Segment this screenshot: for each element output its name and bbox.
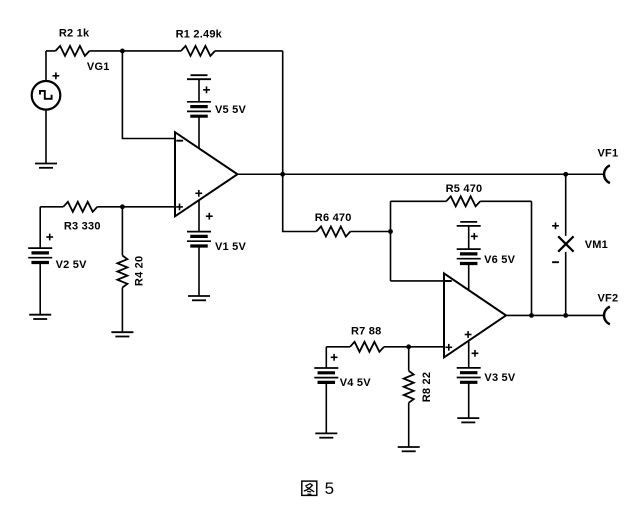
svg-text:R1 2.49k: R1 2.49k bbox=[176, 28, 223, 40]
svg-text:V1 5V: V1 5V bbox=[215, 241, 247, 253]
svg-text:R3 330: R3 330 bbox=[64, 220, 101, 232]
svg-text:V6 5V: V6 5V bbox=[484, 254, 516, 266]
svg-text:R2 1k: R2 1k bbox=[59, 28, 90, 40]
svg-text:5: 5 bbox=[325, 479, 334, 498]
svg-text:V2 5V: V2 5V bbox=[56, 259, 88, 271]
svg-text:V5 5V: V5 5V bbox=[215, 104, 247, 116]
svg-text:R8 22: R8 22 bbox=[421, 372, 433, 402]
svg-text:VM1: VM1 bbox=[585, 239, 608, 251]
svg-text:V3 5V: V3 5V bbox=[484, 372, 516, 384]
svg-text:VF2: VF2 bbox=[598, 292, 619, 304]
svg-text:R4 20: R4 20 bbox=[134, 256, 146, 286]
svg-text:R7 88: R7 88 bbox=[351, 326, 381, 338]
svg-text:R5 470: R5 470 bbox=[446, 183, 483, 195]
svg-text:VG1: VG1 bbox=[87, 61, 110, 73]
svg-text:V4 5V: V4 5V bbox=[340, 377, 372, 389]
svg-text:R6 470: R6 470 bbox=[315, 212, 352, 224]
svg-text:VF1: VF1 bbox=[598, 147, 619, 159]
